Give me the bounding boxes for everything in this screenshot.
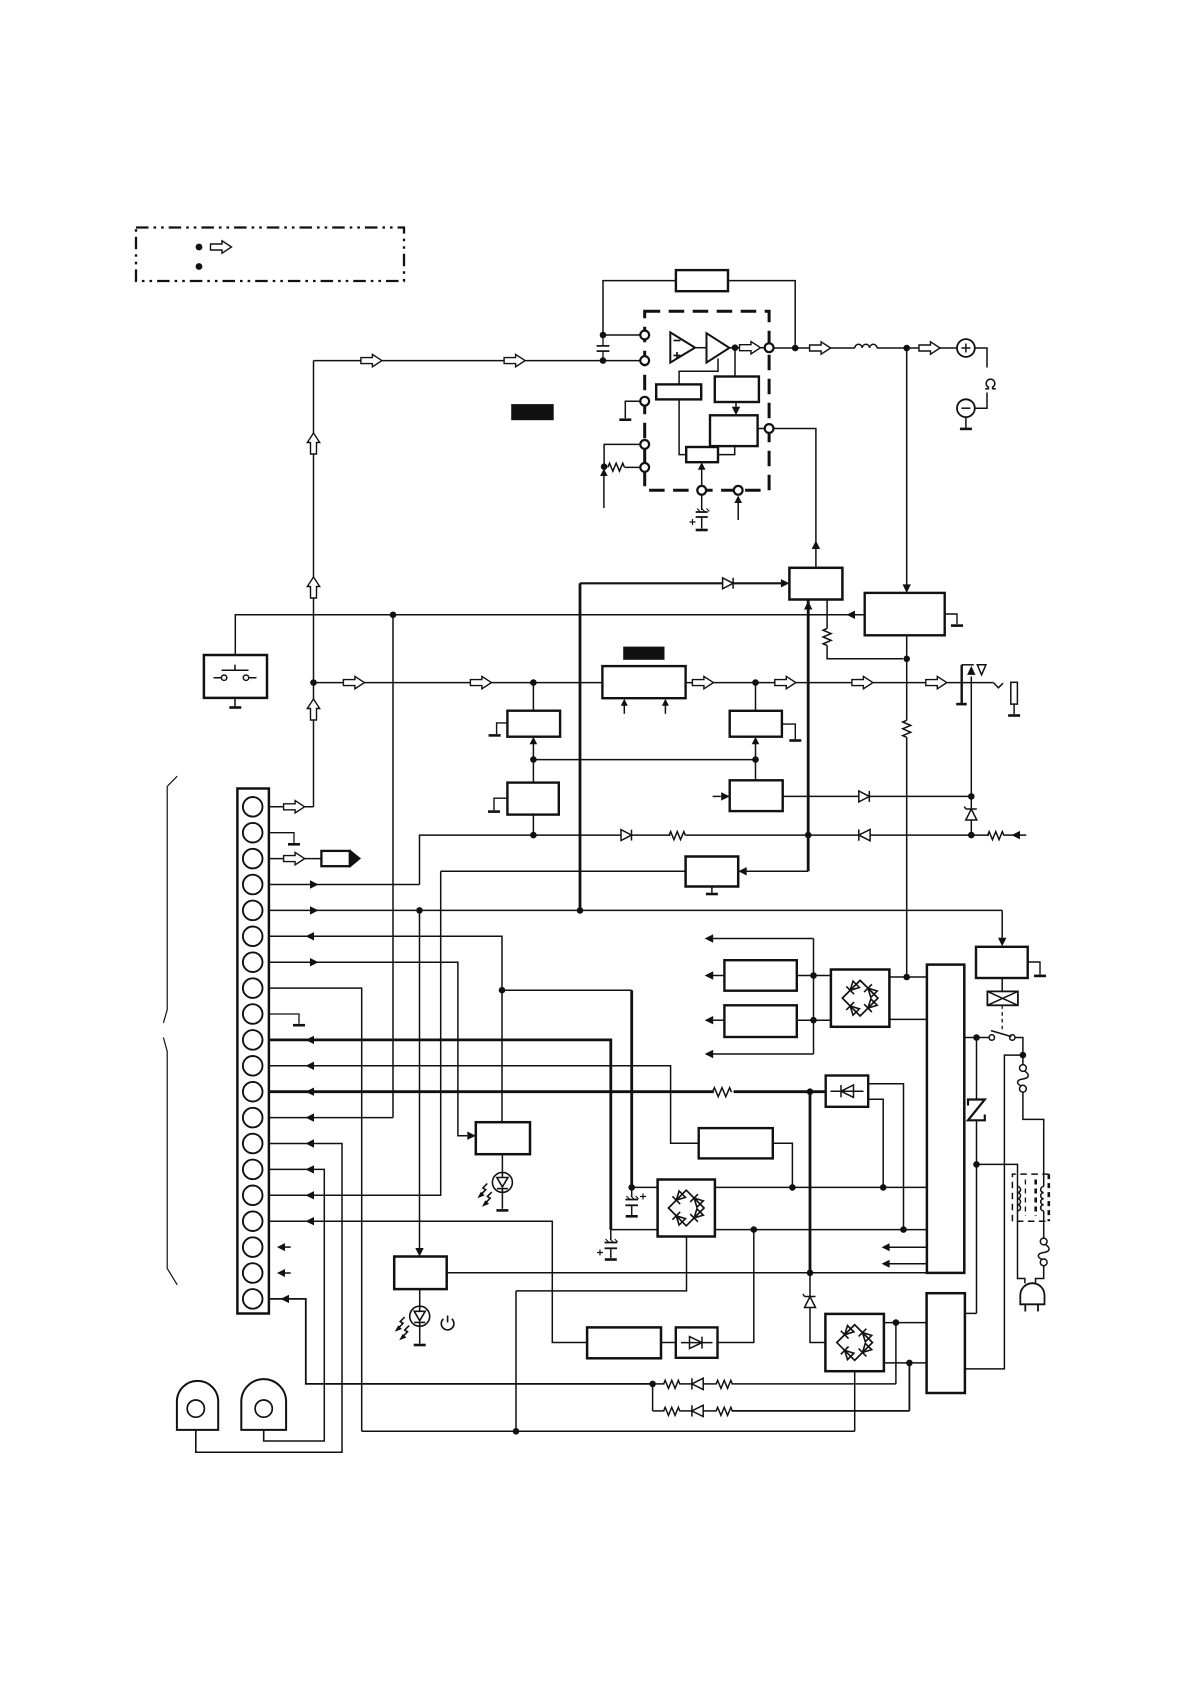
block L1 (timer) [476, 1122, 530, 1154]
IC pin 1 (inv in) [640, 331, 649, 340]
wire U2 to DC line [773, 1143, 793, 1187]
block B3 [730, 711, 782, 737]
wire pin20 (thick) [269, 1299, 653, 1384]
wire row2 d (thick) [732, 1410, 910, 1412]
transformer PT1 dashed box [1012, 1174, 1048, 1221]
ground M1 [706, 893, 718, 896]
IC pin 3 [640, 397, 649, 406]
arrowhead up into P1 bottom [804, 601, 812, 610]
IC pin 2 (non-inv in) [640, 356, 649, 365]
node output feedback [792, 345, 799, 352]
open arrow main 4 [775, 676, 796, 688]
mic capsule MIC1 [177, 1381, 218, 1430]
wire jack to ground [1013, 704, 1015, 714]
arrowhead mute end [1012, 831, 1021, 839]
block Z1 (power transformer unit) [927, 965, 964, 1273]
block T (power control) [394, 1257, 447, 1290]
resistor R-row2a [664, 1407, 681, 1415]
wire Z1 to switch [964, 1037, 989, 1039]
wire mute line f [1004, 834, 1026, 836]
internal block D [715, 377, 759, 403]
wire U4 right upper [965, 1312, 977, 1314]
wire W1 to W2 [661, 1342, 676, 1344]
wire node to BR1 ac1 [632, 1186, 658, 1188]
feedback resistor R-FB box [676, 270, 728, 291]
capacitor C2 (polarized, pin 8) [690, 509, 710, 529]
node bridge DC [903, 974, 910, 981]
internal block F [656, 384, 701, 399]
wire LED1 to ground [501, 1192, 503, 1208]
open arrow IC output [740, 342, 761, 354]
resistor R-row1b [716, 1380, 733, 1388]
IC pin 8 [697, 486, 706, 495]
wire IC pin 8 to G [701, 467, 703, 487]
node SW1 out [1020, 1052, 1027, 1059]
wire AC neutral to primary [977, 1164, 1018, 1186]
arrowhead pin16 [306, 1191, 315, 1199]
capacitor C3 (polarized) [625, 1187, 646, 1215]
wire speaker line down [906, 348, 908, 585]
wire output line a [773, 347, 855, 349]
wire to resistor R-P2 [906, 659, 908, 721]
arrowhead Z1 out 1 [882, 1243, 890, 1251]
wire row2 a [653, 1410, 665, 1412]
wire feedback left to node A [603, 281, 676, 335]
block B4 [730, 780, 783, 811]
node main line start [310, 679, 317, 686]
wire resistor to pin 5 [624, 466, 641, 468]
arrow stub into AMP bottom 2 [664, 705, 666, 714]
connector pin 8 circle [243, 978, 263, 998]
wire BR1 bottom to AC line [516, 1237, 687, 1291]
arrowhead into G bottom [698, 462, 706, 470]
wire node C to diode line [579, 583, 582, 910]
node pin5/P1 branch [577, 907, 584, 914]
open arrow main 5 [852, 676, 873, 688]
wire IC inverting input [603, 334, 641, 336]
wire LED3 to ground [419, 1326, 421, 1343]
wire harness bracket upper [163, 776, 177, 1023]
wire main to B3 top [755, 683, 757, 711]
arrowhead into B1 bottom [530, 737, 538, 745]
wire main line left [314, 682, 603, 684]
arrow stub pin19 [285, 1272, 291, 1274]
wire p16 to M1 [441, 870, 686, 872]
connector pin 12 circle [243, 1082, 263, 1102]
connector pin 18 circle [243, 1237, 263, 1257]
headphone jack frame [956, 665, 974, 704]
wire node to ZD1 [970, 796, 972, 809]
IC pin 9 [734, 486, 743, 495]
wire bias input stem [603, 475, 605, 509]
wire V1 ground [1028, 962, 1040, 975]
wire W0 out upper [868, 1084, 903, 1230]
connector pin 6 circle [243, 927, 263, 947]
arrow stub R-row top [712, 938, 814, 940]
arrow stub into AMP bottom 1 [623, 705, 625, 714]
connector pin 17 circle [243, 1211, 263, 1231]
ground C2 [696, 529, 708, 532]
arrowhead R-row bottom [705, 1050, 714, 1058]
wire jack tip sense [970, 677, 972, 797]
internal block G [686, 447, 718, 462]
wire sense corner to M1 [747, 870, 809, 872]
node speaker feed [903, 345, 910, 352]
wire BR2 bottom [854, 1371, 856, 1431]
diode D5 [859, 791, 870, 802]
wire pin12 (thick) [269, 1090, 714, 1093]
arrowhead pin19 [277, 1269, 285, 1277]
node T line / BR2 branch [807, 1270, 814, 1277]
wire node to B2 top [532, 760, 534, 783]
arrow stub pin18 [285, 1246, 291, 1248]
wire bottom return line [362, 1430, 855, 1432]
wire R1 to BR0 [797, 975, 831, 977]
bridge rectifier BR0 [831, 970, 890, 1027]
open arrow main 2 [470, 676, 491, 688]
fuse F1 [987, 991, 1018, 1005]
ground jack [1008, 714, 1020, 717]
IC pin 5 [640, 463, 649, 472]
arrowhead pin12 [306, 1088, 315, 1096]
resistor R-mute1 [669, 832, 686, 840]
connector pin 10 circle [243, 1030, 263, 1050]
open arrow on input line 1 [361, 354, 382, 366]
node main to B1 [530, 679, 537, 686]
arrowhead Z1 out 2 [882, 1260, 890, 1268]
wire L1 to LED1 [501, 1154, 503, 1172]
wire T output to Z1 [447, 1272, 927, 1274]
connector pin 7 circle [243, 952, 263, 972]
push switch symbol [214, 665, 257, 681]
wire pin10 (thick) [269, 1040, 611, 1230]
capacitor C1 (input coupling) [597, 335, 610, 361]
wire B2 ground arm [494, 798, 507, 810]
diode D1 [723, 578, 734, 589]
wire IC pin 3 to ground [625, 401, 641, 418]
connector pin 9 circle [243, 1004, 263, 1024]
mic capsule MIC2 [241, 1379, 286, 1430]
arrowhead AMP 2 [662, 699, 669, 706]
arrowhead pin20 [281, 1295, 290, 1303]
connector pin 1 circle [243, 797, 263, 817]
connector pin 11 circle [243, 1056, 263, 1076]
open arrow riser 2 [307, 577, 319, 598]
ground pin9 [293, 1024, 305, 1027]
wire R2 to BR0 [797, 1019, 831, 1021]
node BR2 lower [906, 1360, 913, 1367]
block P1 (muting) [789, 568, 842, 600]
node BR1/W2 [751, 1226, 758, 1233]
wire P1 leg 2 [826, 600, 828, 629]
ground C3 [626, 1215, 638, 1218]
arrow stub R-row bottom [712, 1053, 814, 1055]
node A junction [600, 332, 607, 339]
thermal breaker TB1 [1018, 1065, 1029, 1093]
node mute/zener [968, 832, 975, 839]
wire zener to mute line [970, 821, 972, 836]
wire pin16 riser [269, 871, 441, 1195]
wire IC pin 8 to capacitor [701, 494, 703, 510]
node main to B3 [752, 679, 759, 686]
arrowhead up (P1 to IC) [812, 541, 820, 550]
thermal breaker TB2 [1038, 1238, 1049, 1266]
wire node to ZD2 [809, 1273, 811, 1297]
wire row1 d [732, 1383, 896, 1385]
wire B-row link [533, 759, 755, 761]
bracket speaker bottom [975, 393, 987, 409]
wire mic1 lead [195, 1430, 197, 1452]
arrow stub into B4 [713, 795, 721, 797]
arrowhead into B4 left [721, 792, 730, 800]
wire V1 to fuse [1001, 978, 1003, 991]
wire W0 out lower [868, 1099, 883, 1187]
ground LED1 [496, 1209, 508, 1212]
surge protector symbol Z [968, 1100, 985, 1121]
connector pin 3 circle [243, 849, 263, 869]
wire AC2 line right [715, 1229, 927, 1231]
wire D to E [735, 402, 737, 412]
wire G to E [718, 446, 735, 455]
resistor R-bias [608, 463, 625, 471]
wire SW1 to breaker [1015, 1038, 1023, 1056]
AC plug [1020, 1283, 1044, 1311]
wire pin3 out [269, 858, 322, 860]
arrowhead into P2 top [903, 584, 911, 593]
wire IC pin 9 stub [737, 502, 739, 520]
buffer amp A2 [707, 333, 730, 362]
connector pin 5 circle [243, 901, 263, 921]
node Z branch [973, 1034, 980, 1041]
wire D5 to jack line [870, 795, 971, 797]
wire A2 output [729, 347, 765, 349]
wire BR0 to Z1 upper [889, 976, 927, 978]
node AC neutral [973, 1161, 980, 1168]
wire mute line c [686, 834, 808, 836]
arrowhead pin10 [306, 1036, 315, 1044]
arrowhead R1 [705, 971, 714, 979]
ground S1 [229, 706, 241, 709]
arrowhead pin7 [310, 958, 319, 966]
wire pin5 line [269, 909, 1002, 911]
connector pin 19 circle [243, 1263, 263, 1283]
block R1 (rectifier reg) [724, 960, 796, 991]
node buffer output [732, 344, 739, 351]
wire pin1 out [269, 806, 314, 808]
LED3 light arrows [395, 1317, 405, 1332]
wire mute line a [533, 834, 621, 836]
open arrow main 1 [343, 676, 364, 688]
wire B3 feed [755, 742, 757, 760]
ground P2 [951, 624, 963, 627]
block M1 (mute drive) [686, 857, 739, 887]
ground V1 [1034, 975, 1046, 978]
ground pin2 [288, 843, 300, 846]
transformer secondary winding [1041, 1187, 1044, 1211]
IC pin 4 [640, 440, 649, 449]
connector pin 14 circle [243, 1134, 263, 1154]
wire diode line [580, 582, 723, 584]
node P1/P2 junction [903, 656, 910, 663]
arrowhead pin17 [306, 1217, 315, 1225]
wire F to G [679, 399, 686, 454]
open arrow riser 1 [307, 433, 319, 454]
internal block E [710, 415, 758, 446]
wire diode to P1 [733, 582, 781, 584]
wire pin4 out [269, 884, 420, 886]
arrowhead R2 [705, 1016, 714, 1024]
wire node to B4 top [755, 760, 757, 781]
diode D7 [692, 1405, 703, 1416]
connector CN1 body [237, 789, 269, 1314]
wire IC pin 4 [604, 444, 641, 466]
jack detect triangle [977, 665, 986, 675]
arrowhead pin13 [306, 1113, 315, 1121]
diode D6 [692, 1378, 703, 1389]
wire pin14 to mic1 [196, 1144, 342, 1453]
node W0/ac2 [900, 1226, 907, 1233]
wire mute line b [632, 834, 671, 836]
wire mute line e [870, 834, 989, 836]
wire primary to plug [1018, 1211, 1025, 1284]
ground B2 [488, 810, 500, 813]
ground B3 [789, 739, 801, 742]
arrow stub R1 left [712, 975, 724, 977]
node mute/sense [805, 832, 812, 839]
wire ZD2 to BR2 [810, 1308, 825, 1343]
wire P2 ground [945, 614, 957, 624]
wire row1 a [653, 1383, 665, 1385]
wire row1 c [703, 1383, 717, 1385]
block B2 [507, 783, 558, 815]
node BR1 ac1 [628, 1184, 635, 1191]
zener diode ZD2 [803, 1294, 816, 1308]
wire under buffer [679, 359, 718, 385]
wire DC line right [715, 1186, 927, 1188]
arrowhead pin4 [310, 880, 319, 888]
open arrow pin3 [284, 852, 305, 864]
node B2 mute [530, 832, 537, 839]
arrow stub Z1 out 2 [889, 1263, 927, 1265]
block U4 (regulator) [927, 1293, 965, 1393]
wire row link [652, 1384, 654, 1411]
wire BR2 to U4 lower [884, 1362, 927, 1364]
wire pin9 to ground [269, 1014, 299, 1024]
wire BR2 lower to diode row2 (thick) [908, 1363, 910, 1411]
resistor R-mute2 [988, 832, 1005, 840]
open arrow output line 2 [919, 342, 940, 354]
wire pin8 riser [269, 988, 362, 1431]
arrowhead jack up [967, 666, 975, 675]
IC pin out [765, 343, 774, 352]
ground C4 [605, 1258, 617, 1261]
wire L1 bottom to AC line [515, 1291, 517, 1431]
node bottom return [513, 1428, 520, 1435]
arrowhead pin15 [306, 1165, 315, 1173]
connector pin 4 circle [243, 875, 263, 895]
wire BR0 to Z1 lower [889, 1018, 927, 1020]
wire row2 c [703, 1410, 717, 1412]
jack tip contact bar [1011, 682, 1018, 704]
wire pin6 riser [269, 936, 502, 1122]
block V1 (relay) [976, 947, 1028, 978]
wire R-P2 to bridge line [906, 737, 908, 977]
arrowhead pin6 [306, 932, 315, 940]
node B1/B2 [530, 756, 537, 763]
wire output to block D [734, 348, 736, 377]
wire W2 to AC2 node [718, 1230, 754, 1343]
block AMP (volume amp) [602, 666, 685, 698]
arrow stub Z1 out 1 [889, 1246, 927, 1248]
connector pin 20 circle [243, 1289, 263, 1309]
wire TB1 to transformer [1023, 1092, 1044, 1186]
IC pin ripple [765, 424, 774, 433]
LED D-power [410, 1306, 430, 1326]
LED D-timer [492, 1172, 512, 1192]
wire feedback right to output node [728, 281, 795, 348]
resistor R-P2 [903, 720, 911, 737]
arrowhead pin5 [310, 906, 319, 914]
zener diode ZD1 [964, 807, 977, 821]
signal tag pointer (pin3) [321, 851, 349, 866]
arrowhead into P2 left [847, 611, 856, 619]
wire P1 bottom sense (thick) [807, 600, 810, 872]
arrowhead into P1 [781, 579, 790, 587]
wire to breaker TB1 [1022, 1055, 1024, 1065]
wire p4 riser [420, 835, 534, 884]
ground IC pin 3 [619, 418, 631, 421]
node BR2 upper [893, 1319, 900, 1326]
bracket speaker top [975, 348, 987, 368]
arrowhead pin11 [306, 1062, 315, 1070]
wire resistor to speaker node [827, 646, 903, 659]
capacitor C4 (polarized) [597, 1230, 618, 1258]
arrowhead bias up [600, 469, 608, 477]
wire pin7 to L1 [269, 962, 467, 1135]
diode D3 [621, 830, 632, 841]
wire minus to ground [965, 417, 967, 428]
transformer primary winding [1018, 1187, 1021, 1211]
wire Z element lower [976, 1120, 978, 1313]
arrowhead pin 9 up [734, 496, 742, 504]
ground LED3 [414, 1344, 426, 1347]
node B junction (input line) [600, 357, 607, 364]
wire main line right [686, 682, 994, 684]
arrowhead into T top [415, 1248, 423, 1257]
wire B1 feed [532, 742, 534, 760]
block R2 (rectifier reg) [724, 1005, 796, 1037]
connector pin 13 circle [243, 1108, 263, 1128]
arrowhead into L1 left [467, 1132, 476, 1140]
wire Z element upper [976, 1038, 978, 1100]
node R1/BR0 [810, 972, 817, 979]
wire R-p12 to W0 [734, 1090, 826, 1093]
wire pin5 branch to T [419, 910, 421, 1248]
node B3/B4 [752, 756, 759, 763]
bridge rectifier BR2 [825, 1314, 884, 1371]
arrowhead into V1 top [998, 938, 1006, 947]
wire B4 to diode D5 [783, 795, 859, 797]
resistor R-row1a [664, 1380, 681, 1388]
connector pin 2 circle [243, 823, 263, 843]
wire T to LED3 [419, 1289, 421, 1306]
wire mic2 lead [263, 1430, 265, 1441]
jack switch contact [993, 683, 1003, 688]
arrowhead pin14 [306, 1139, 315, 1147]
wire R-row bus [813, 939, 815, 1055]
arrowhead R-row top [705, 934, 714, 942]
wire main input line to IC [314, 360, 642, 362]
